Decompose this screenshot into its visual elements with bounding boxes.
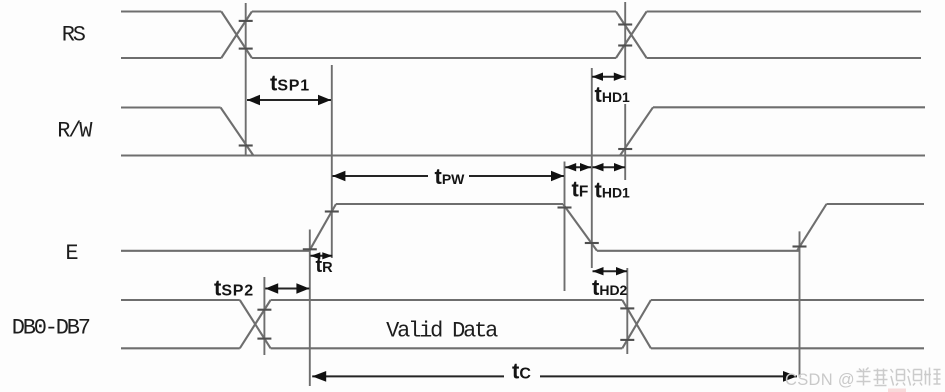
dimension line V7 x=625.2 upper [624, 2, 626, 80]
watermark CJK glyph 5 [924, 368, 941, 386]
dimension line V8 x=627.3 [626, 268, 628, 354]
wire E low mid [597, 250, 800, 252]
wire R/W high left [121, 106, 221, 108]
dimension line V1 x=245.7 [245, 3, 247, 156]
arrow tF [565, 163, 591, 171]
tick RS right upper [618, 23, 632, 25]
watermark CJK glyph 3 [891, 369, 906, 386]
tick DB left upper [257, 309, 271, 311]
tick E fall left [558, 206, 572, 208]
wire E low left [121, 250, 309, 252]
wire RS top line [121, 10, 921, 12]
wire DB top line [121, 299, 924, 301]
arrow tPW [332, 171, 564, 181]
arrow tR [310, 252, 332, 259]
wire E falling edge [563, 204, 597, 251]
dimension line V2 x=331.8 [331, 65, 333, 258]
dimension line V4 x=264.4 [263, 277, 265, 355]
arrow tSP2 [265, 283, 309, 293]
arrow tHD2 [593, 267, 628, 275]
dimension line V7 x=625.2 lower [624, 104, 626, 180]
tick DB right lower [620, 339, 634, 341]
watermark CJK glyph 4 [908, 369, 923, 386]
tick E fall right [585, 242, 599, 244]
arrow tC [312, 371, 797, 382]
DB crossover right [622, 300, 651, 348]
tick R/W rise [618, 148, 632, 150]
svg-text:CSDN @: CSDN @ [785, 371, 855, 389]
pink patch [888, 389, 906, 392]
arrow tSP1 [247, 95, 331, 105]
wire R/W falling edge [221, 108, 254, 156]
tick R/W fall [239, 144, 253, 146]
watermark CJK glyph 2 [874, 369, 888, 386]
tick RS left upper [239, 20, 253, 22]
svg-text:R/W: R/W [57, 119, 93, 144]
RS crossover right [616, 12, 647, 59]
label tPW [428, 165, 469, 187]
dimension line V5 x=564.5 [564, 162, 566, 292]
tick E rise2 [793, 245, 807, 247]
wire E rising edge 2 [797, 204, 827, 251]
arrow tHD1 bottom [593, 163, 626, 171]
wire E rising edge 1 [309, 204, 336, 251]
wire RS bottom line [121, 57, 921, 59]
tick E rise1 high [325, 210, 339, 212]
dimension line V6 x=591.8 [591, 68, 593, 268]
dimension line V9 x=799.5 [799, 231, 801, 377]
svg-text:DB0-DB7: DB0-DB7 [12, 315, 90, 340]
label tC [504, 363, 540, 383]
tick RS left lower [239, 48, 253, 50]
arrow tHD1 top [592, 73, 625, 81]
wire R/W low line [121, 154, 925, 156]
RS crossover left [221, 12, 252, 59]
dimension line V3 x=309.8 [309, 230, 311, 387]
tick DB left lower [257, 338, 271, 340]
wire E high [336, 203, 563, 205]
svg-text:RS: RS [62, 22, 86, 47]
wire E high right [827, 203, 925, 205]
tick DB right upper [620, 307, 634, 309]
svg-text:Valid Data: Valid Data [386, 318, 498, 343]
tick RS right lower [618, 44, 632, 46]
wire DB bottom line [121, 347, 924, 349]
wire R/W rising edge [620, 107, 653, 155]
watermark CJK glyph 1 [857, 368, 871, 386]
DB crossover left [240, 300, 271, 348]
tick E rise1 low [303, 248, 317, 250]
wire R/W high right [653, 106, 925, 108]
